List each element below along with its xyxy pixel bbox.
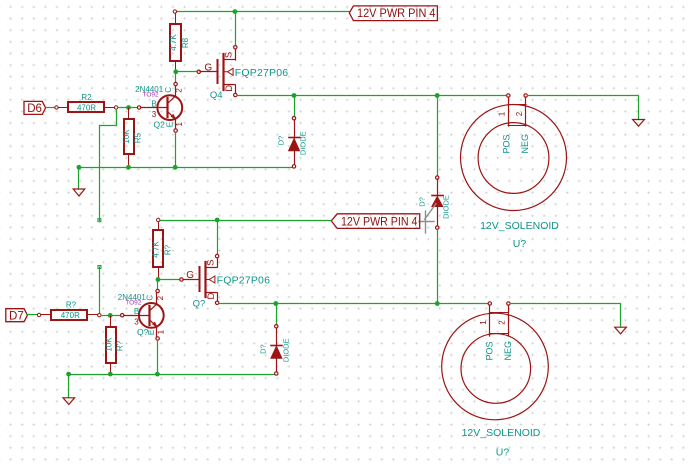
wire 12V top rail (176, 11, 349, 13)
junction gnd rail / emitter (173, 165, 178, 170)
svg-text:DIODE: DIODE (441, 195, 450, 219)
ground symbol (top left) (73, 189, 85, 196)
solenoid U? (top) 12V_SOLENOID (461, 94, 567, 250)
svg-text:U?: U? (513, 238, 527, 250)
wire gate Q4 (176, 71, 197, 73)
junction gnd rail / R5 (126, 165, 131, 170)
svg-text:R5: R5 (133, 132, 142, 143)
svg-text:C: C (164, 87, 173, 93)
transistor Q2 2N4401 (135, 82, 184, 132)
wire Q? drain rail (bottom) (219, 303, 488, 305)
svg-text:S: S (224, 52, 235, 58)
svg-text:DIODE: DIODE (299, 131, 308, 155)
resistor R? 10K (bottom) (104, 316, 124, 372)
svg-text:R?: R? (66, 301, 77, 310)
ground symbol (bottom left) (63, 398, 75, 405)
svg-text:FQP27P06: FQP27P06 (217, 275, 271, 287)
svg-text:NEG: NEG (503, 341, 513, 361)
svg-text:R?: R? (163, 244, 172, 255)
svg-text:D?: D? (258, 344, 267, 354)
junction gnd rail / 10K (bottom) (108, 372, 113, 377)
svg-text:12V_SOLENOID: 12V_SOLENOID (462, 427, 541, 439)
svg-text:10K: 10K (122, 129, 131, 144)
wire ground stub (78, 167, 80, 189)
junction drain / diode D3 (273, 301, 278, 306)
global label 12V PWR PIN 4 (middle) (331, 214, 419, 229)
svg-text:Q?: Q? (193, 298, 206, 309)
junction gnd rail / stub (bottom) (66, 372, 71, 377)
wire emitter Q2 to ground rail (175, 132, 177, 167)
svg-text:2: 2 (498, 320, 507, 325)
svg-text:Q4: Q4 (210, 90, 223, 101)
resistor R5 10K (122, 108, 142, 166)
svg-text:4.7K: 4.7K (151, 241, 160, 258)
svg-text:4.7K: 4.7K (169, 34, 178, 51)
svg-text:1: 1 (479, 320, 488, 325)
svg-text:S: S (205, 260, 216, 266)
junction gnd rail / emitter (bottom) (155, 372, 160, 377)
resistor R8 4.7K (169, 10, 190, 71)
svg-text:DIODE: DIODE (282, 338, 291, 362)
svg-text:R?: R? (116, 340, 125, 351)
solenoid U? (bottom) 12V_SOLENOID (442, 302, 549, 459)
svg-text:12V PWR PIN 4: 12V PWR PIN 4 (341, 214, 418, 228)
diode D3 (flyback, bottom circuit) (258, 303, 290, 375)
svg-text:12V PWR PIN 4: 12V PWR PIN 4 (357, 6, 436, 20)
svg-text:2: 2 (156, 295, 165, 300)
svg-text:D: D (206, 292, 217, 299)
svg-text:POS: POS (501, 134, 511, 153)
svg-text:Q2: Q2 (154, 119, 166, 129)
ground symbol (bottom right) (615, 327, 627, 334)
svg-text:D?: D? (418, 197, 427, 207)
svg-text:NEG: NEG (520, 134, 530, 154)
wire diode D2 down to lower drain rail (437, 229, 439, 303)
junction drain / diode D2 bottom (435, 301, 440, 306)
wire D7 to R? (27, 314, 37, 316)
transistor Q? 2N4401 (bottom) (118, 289, 166, 340)
wire base node (bottom) (101, 315, 120, 317)
wire collector Q2 to node (175, 72, 177, 82)
junction base / R5 (126, 105, 131, 110)
wire dangling segment to lower circuit (99, 267, 101, 315)
svg-text:R8: R8 (181, 37, 190, 48)
svg-text:3: 3 (134, 318, 139, 327)
svg-text:Q?: Q? (137, 327, 149, 337)
resistor R? 470R (bottom) (37, 301, 101, 320)
svg-text:10K: 10K (104, 337, 113, 352)
wire drain rail to diode D2 (437, 95, 439, 176)
wire solenoid pin2 to ground (bottom) (511, 304, 621, 327)
svg-text:1: 1 (157, 329, 166, 334)
svg-text:R2: R2 (81, 93, 92, 102)
wire ground rail (bottom circuit) (69, 374, 275, 376)
ground symbol (top right) (633, 120, 645, 127)
svg-text:POS: POS (484, 341, 494, 360)
wire gate Q? (158, 279, 180, 281)
wire base node (118, 107, 137, 109)
svg-text:E: E (166, 122, 175, 127)
svg-text:D6: D6 (27, 103, 42, 115)
svg-text:U?: U? (496, 447, 510, 459)
wire emitter Q? to ground rail (157, 340, 159, 374)
cursor crosshair (419, 204, 436, 233)
wire Q? source up to rail (217, 220, 219, 254)
svg-text:E: E (147, 330, 156, 335)
svg-text:12V_SOLENOID: 12V_SOLENOID (480, 220, 559, 232)
resistor R2 470R (55, 93, 118, 112)
junction rail / Q? source (215, 218, 220, 223)
wire D6 to R2 (46, 107, 55, 109)
svg-text:FQP27P06: FQP27P06 (235, 67, 289, 79)
wire branch from base node down-left (dangling) (100, 110, 117, 221)
junction top rail / Q4 source (233, 9, 238, 14)
svg-text:B: B (134, 307, 139, 316)
svg-text:3: 3 (152, 110, 157, 119)
svg-text:C: C (145, 295, 154, 301)
svg-text:1: 1 (175, 122, 184, 127)
svg-text:1: 1 (497, 111, 506, 116)
svg-text:2: 2 (515, 111, 524, 116)
svg-text:D: D (224, 85, 235, 92)
svg-text:470R: 470R (77, 104, 96, 113)
junction gnd rail / gnd stub (77, 165, 82, 170)
svg-text:G: G (204, 62, 212, 73)
svg-text:G: G (186, 270, 194, 281)
junction drain / diode D1 (292, 93, 297, 98)
resistor R? 4.7K (bottom) (151, 218, 172, 278)
junction R8 / gate / collector node (173, 69, 178, 74)
transistor Q? FQP27P06 P-MOSFET (bottom) (180, 254, 270, 309)
svg-text:D7: D7 (9, 310, 24, 322)
junction drain / diode D2 (435, 93, 440, 98)
wire Q4 source up to rail (235, 12, 237, 46)
wire ground stub (bottom) (68, 374, 70, 397)
junction R? / gate / collector node (bottom) (156, 277, 161, 282)
global label 12V PWR PIN 4 (top) (349, 6, 437, 21)
wire solenoid pin2 to ground (top) (528, 96, 639, 120)
svg-text:B: B (151, 99, 156, 108)
diode D2 (between rails) (418, 176, 451, 229)
svg-text:TO92: TO92 (143, 91, 160, 98)
svg-text:TO92: TO92 (125, 299, 142, 306)
svg-text:D?: D? (276, 136, 285, 146)
wire collector Q? to node (157, 280, 159, 289)
svg-text:470R: 470R (61, 311, 80, 320)
wire Q4 drain rail (237, 95, 507, 97)
svg-text:2: 2 (175, 88, 184, 93)
junction base / 10K (bottom) (108, 313, 113, 318)
diode D1 (flyback, top circuit) (276, 95, 307, 168)
transistor Q4 FQP27P06 P-MOSFET (197, 46, 288, 102)
global label D6 (24, 101, 46, 115)
global label D7 (6, 309, 28, 323)
wire ground rail (top circuit) (79, 167, 292, 169)
wire 12V rail (bottom circuit) (160, 220, 331, 222)
